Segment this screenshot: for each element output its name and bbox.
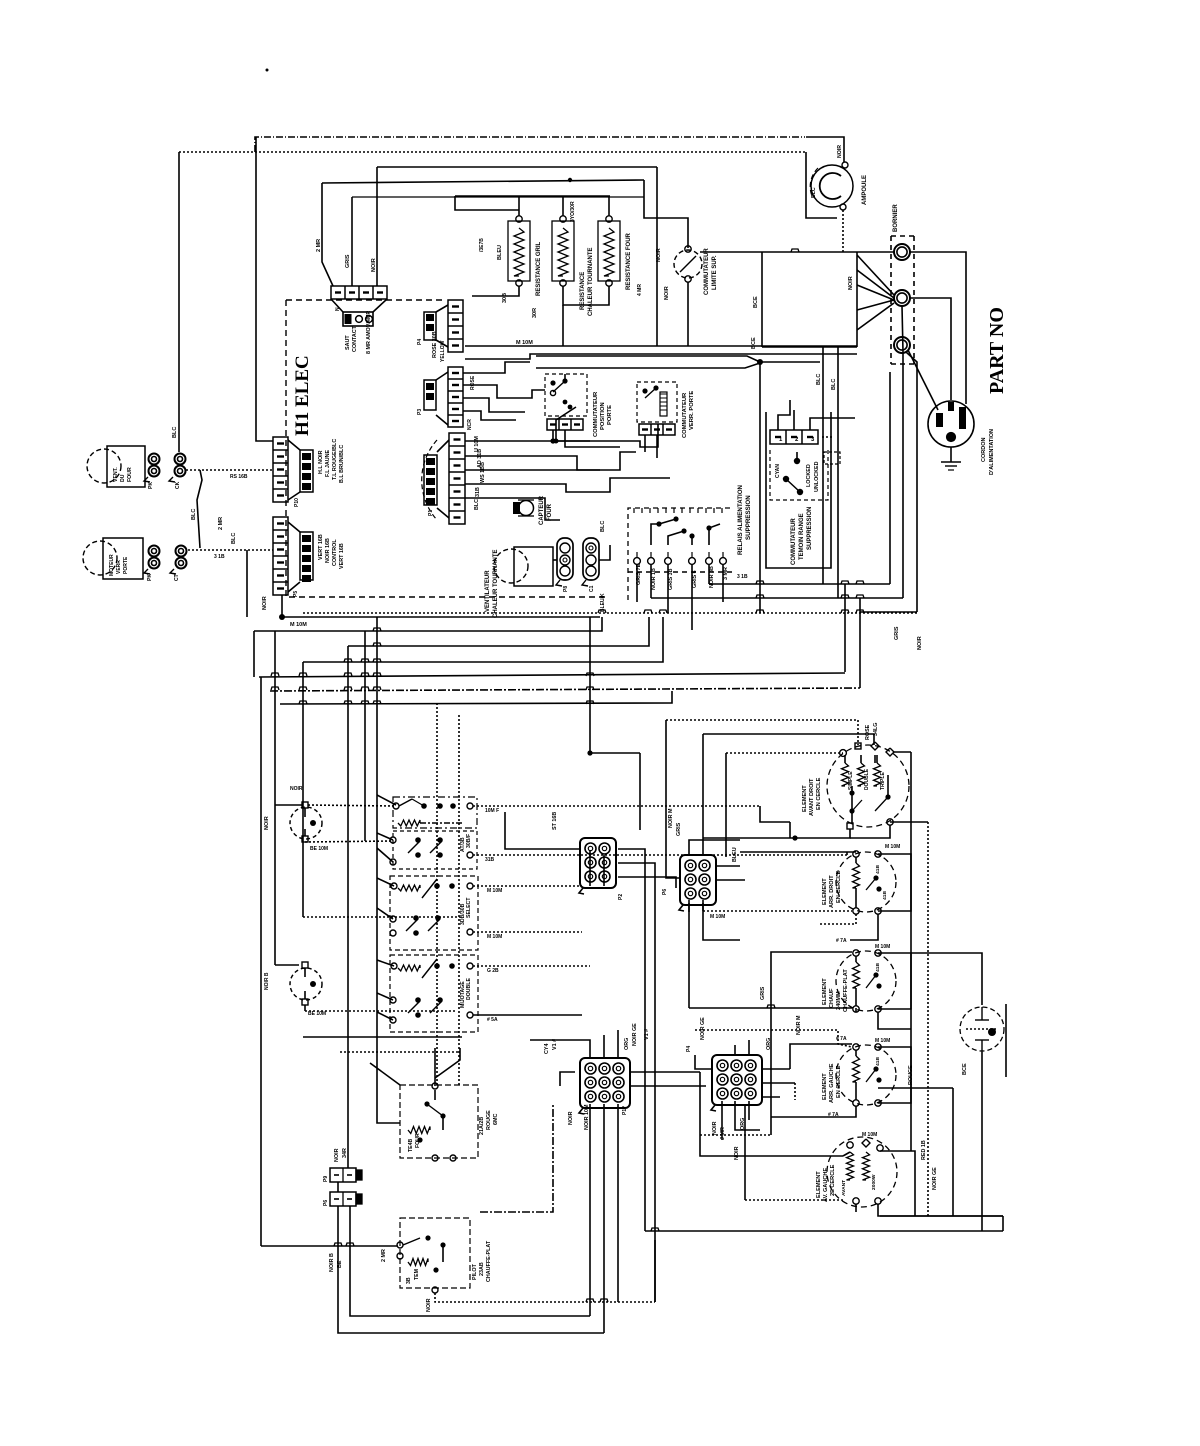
terminal pair motor2 b xyxy=(176,546,187,557)
svg-text:VERT 16B: VERT 16B xyxy=(339,543,345,569)
wire lamp1 top feed xyxy=(275,804,302,806)
svg-text:J MR: J MR xyxy=(720,1127,726,1140)
svg-text:2: 2 xyxy=(795,437,799,443)
svg-text:C1: C1 xyxy=(589,585,595,592)
svg-text:SUPPRESSION: SUPPRESSION xyxy=(745,495,752,540)
svg-text:3: 3 xyxy=(811,437,815,443)
wire C1 to relay xyxy=(599,545,610,560)
svg-text:ELEMENT: ELEMENT xyxy=(802,785,808,812)
svg-text:NOIR: NOIR xyxy=(568,1111,574,1125)
svg-text:EN CERCLE: EN CERCLE xyxy=(816,777,822,810)
svg-text:CY4: CY4 xyxy=(544,1044,550,1055)
svg-text:PK: PK xyxy=(147,574,153,581)
wire element5 bottom feed xyxy=(745,1199,843,1201)
svg-text:ELEMENT: ELEMENT xyxy=(822,1073,828,1100)
terminal pair motor2 a xyxy=(149,546,160,557)
svg-text:NOIR: NOIR xyxy=(426,1298,432,1312)
svg-text:TE4B: TE4B xyxy=(408,1138,414,1152)
svg-text:P6: P6 xyxy=(662,889,668,895)
wire lamp2 bottom to switch D xyxy=(304,1005,306,1011)
bus y584 relay to plug xyxy=(709,583,890,585)
wire selector A out xyxy=(473,805,760,807)
svg-text:POSITION: POSITION xyxy=(600,402,606,430)
switch chauffe-plat box xyxy=(400,1218,470,1288)
svg-text:PART NO: PART NO xyxy=(986,307,1008,394)
terminal bolt N xyxy=(894,290,910,306)
svg-text:NOIR: NOIR xyxy=(917,636,923,650)
svg-text:NOIR: NOIR xyxy=(262,596,268,610)
svg-text:NOIR B: NOIR B xyxy=(329,1253,335,1272)
svg-text:P8: P8 xyxy=(563,586,569,592)
svg-text:RESISTANCE FOUR: RESISTANCE FOUR xyxy=(626,232,632,290)
connector P7 header xyxy=(331,286,387,299)
svg-text:ROUGE: ROUGE xyxy=(486,1110,492,1130)
svg-text:CHAUFFE-PLAT: CHAUFFE-PLAT xyxy=(486,1240,492,1282)
wire y720 to element1 xyxy=(666,720,858,745)
svg-text:V1 #: V1 # xyxy=(552,1039,558,1050)
svg-text:TRIPLE: TRIPLE xyxy=(880,772,886,790)
svg-text:30B: 30B xyxy=(502,293,508,303)
drop x437 dotted xyxy=(436,703,438,1085)
element4 terminals xyxy=(853,1044,859,1050)
connector 9pin D xyxy=(712,1055,762,1105)
wires 9pin D xyxy=(695,1055,712,1069)
connector strip position porte xyxy=(547,419,583,430)
svg-text:RED 1B: RED 1B xyxy=(921,1140,927,1160)
svg-text:BE 10M: BE 10M xyxy=(308,1011,326,1017)
wire chauffe plat out xyxy=(435,1293,655,1302)
svg-text:240MM: 240MM xyxy=(836,991,842,1010)
svg-text:P1?: P1? xyxy=(622,1106,628,1115)
wire horloge down xyxy=(981,1052,983,1231)
wires relay bottom xyxy=(636,565,638,602)
svg-text:ARR. DROIT: ARR. DROIT xyxy=(829,875,835,908)
junction dot y180 xyxy=(568,178,572,182)
svg-text:V1 #: V1 # xyxy=(644,1029,650,1040)
svg-text:CONTACT: CONTACT xyxy=(352,325,358,352)
wires lock connector up xyxy=(778,400,790,430)
bus bottom y1315 xyxy=(350,1255,590,1316)
fuse dashes xyxy=(822,436,834,438)
svg-text:M 10M: M 10M xyxy=(290,622,307,628)
svg-text:BLC: BLC xyxy=(172,427,178,438)
hop pair el2 xyxy=(850,930,878,940)
svg-text:CHAUF: CHAUF xyxy=(829,988,835,1008)
resistor RESISTANCE FOUR xyxy=(598,221,620,281)
svg-text:M 10M: M 10M xyxy=(487,934,502,940)
wires element3 xyxy=(855,1008,857,1012)
wire feed lamps x275 xyxy=(274,631,276,965)
wires element4 xyxy=(790,1044,852,1047)
bus y675 xyxy=(259,673,845,677)
wires below position porte xyxy=(553,430,590,441)
svg-text:GRIS: GRIS xyxy=(894,626,900,640)
svg-text:RELAIS ALIMENTATION: RELAIS ALIMENTATION xyxy=(737,484,744,555)
svg-text:21A/2B: 21A/2B xyxy=(479,1117,485,1135)
element avant droit resistors xyxy=(842,763,849,786)
svg-text:3 1B: 3 1B xyxy=(214,554,225,560)
svg-text:NOIR: NOIR xyxy=(712,1121,718,1135)
left diagonal feeds xyxy=(377,795,396,805)
svg-text:GRIS 3B: GRIS 3B xyxy=(668,568,674,590)
wire x590 drop xyxy=(589,617,591,714)
svg-text:CHAUFFE-PLAT: CHAUFFE-PLAT xyxy=(843,969,849,1012)
relay box RELAIS ALIMENTATION dashed xyxy=(628,508,732,600)
connector P10 plug xyxy=(288,440,300,450)
svg-text:YELLOW: YELLOW xyxy=(440,340,446,362)
wire from node right xyxy=(760,361,820,363)
label BLC motor2 wire xyxy=(188,549,273,551)
svg-text:BCE: BCE xyxy=(962,1063,968,1075)
left long vertical bus xyxy=(253,631,255,677)
svg-text:BLC: BLC xyxy=(600,521,606,532)
svg-text:NOIR: NOIR xyxy=(848,276,854,290)
svg-text:BLEU: BLEU xyxy=(732,847,738,862)
wire y1037 xyxy=(303,1036,462,1038)
commutateur temoin enclosure box xyxy=(766,412,831,568)
svg-text:RESISTANCE GRIL: RESISTANCE GRIL xyxy=(536,241,542,296)
capteur four symbol xyxy=(513,502,520,514)
svg-text:P10: P10 xyxy=(294,498,300,507)
wire node down xyxy=(759,362,761,613)
svg-text:3 MR: 3 MR xyxy=(723,567,729,580)
wires 6pin B xyxy=(689,840,740,855)
svg-text:FOUR: FOUR xyxy=(547,503,553,521)
svg-text:VENT.: VENT. xyxy=(113,467,119,482)
connector P1 plug xyxy=(437,440,449,452)
wire N to GRIS vertical xyxy=(902,306,903,598)
connector P4 strip xyxy=(448,300,463,352)
svg-text:41B: 41B xyxy=(875,1057,881,1066)
hops on busses xyxy=(373,628,381,631)
connector P10 strip xyxy=(273,437,288,502)
wire L1 to plug xyxy=(910,252,966,404)
svg-text:BE 10M: BE 10M xyxy=(310,846,328,852)
svg-text:# 7A: # 7A xyxy=(836,938,847,944)
svg-text:CT: CT xyxy=(174,573,180,581)
svg-text:NCR: NCR xyxy=(467,419,473,430)
terminal pair motor1 b xyxy=(175,454,186,465)
wire x953 vertical xyxy=(952,1088,954,1216)
element arr droit internals xyxy=(853,863,860,888)
wire 9pinD down leg xyxy=(744,1105,746,1200)
svg-text:LIMITE SUP.: LIMITE SUP. xyxy=(712,255,718,290)
connector P5 strip xyxy=(273,517,288,595)
wire fan to neutral xyxy=(857,255,894,295)
wire four C out xyxy=(473,885,582,887)
svg-text:M 10M: M 10M xyxy=(487,888,502,894)
svg-text:NOIR GE: NOIR GE xyxy=(932,1167,938,1190)
wire x377 jog xyxy=(376,167,378,199)
svg-text:# 5A: # 5A xyxy=(487,1017,498,1023)
svg-text:F.L JAUNE: F.L JAUNE xyxy=(325,449,331,477)
wire bus L2 top xyxy=(179,151,806,153)
svg-text:COMMUTATEUR: COMMUTATEUR xyxy=(791,518,797,565)
element3 terminals xyxy=(853,950,859,956)
svg-text:ARR. GAUCHE: ARR. GAUCHE xyxy=(829,1063,835,1103)
svg-text:BCE: BCE xyxy=(751,337,757,349)
wire x365 drop xyxy=(364,631,366,841)
wire x790 to el1 bottom xyxy=(789,822,791,838)
svg-text:BLC: BLC xyxy=(831,379,837,390)
element avant droit circle xyxy=(827,745,909,827)
element chauffe plat circle xyxy=(836,951,896,1011)
wire four C out2 xyxy=(473,931,582,933)
wire 6pinB to element2 bottom xyxy=(702,903,704,911)
wire fan to P8 xyxy=(553,559,557,561)
svg-text:P4: P4 xyxy=(417,339,423,345)
wire bus L1 top xyxy=(255,137,805,152)
svg-text:BLC: BLC xyxy=(474,499,480,510)
svg-text:M 10M: M 10M xyxy=(516,340,533,346)
svg-text:CYAN: CYAN xyxy=(775,464,781,478)
switch selector box A xyxy=(393,797,477,828)
commutateur position porte box xyxy=(545,374,587,416)
connector 6pin B xyxy=(680,855,716,905)
svg-text:BORNIER: BORNIER xyxy=(893,204,899,232)
connector strip verr porte xyxy=(639,424,675,435)
svg-text:CORDON: CORDON xyxy=(981,438,987,462)
svg-text:VERR: VERR xyxy=(116,560,122,574)
connector P9 xyxy=(330,1168,356,1182)
lock switch dashed box xyxy=(770,450,828,500)
wire y1135 xyxy=(700,1134,771,1136)
svg-text:PORTE: PORTE xyxy=(607,405,613,425)
svg-text:T.L ROUGE/BLC: T.L ROUGE/BLC xyxy=(332,439,338,480)
svg-text:TEM: TEM xyxy=(414,1269,420,1280)
motor VENT DU FOUR xyxy=(87,449,121,483)
wire y734 to element1 xyxy=(703,734,874,745)
svg-text:PILOT: PILOT xyxy=(472,1263,478,1280)
svg-text:M 10M: M 10M xyxy=(862,1132,877,1138)
diagonal wires into four switch xyxy=(370,1063,400,1085)
svg-text:41B: 41B xyxy=(875,865,881,874)
junction node BCE xyxy=(757,359,763,365)
connector P7 plug body xyxy=(331,299,343,312)
svg-text:41B: 41B xyxy=(882,891,888,900)
commutateur limite sup circle xyxy=(674,250,702,278)
wires P9 P6 down xyxy=(337,1206,339,1245)
svg-text:PORTE: PORTE xyxy=(123,556,129,574)
svg-text:ROSE: ROSE xyxy=(470,375,476,390)
svg-text:GRIS: GRIS xyxy=(345,254,351,268)
element arr droit box right xyxy=(878,854,911,911)
wires element5 xyxy=(843,1152,850,1156)
bus y1245 xyxy=(261,1245,398,1247)
svg-text:2 MR: 2 MR xyxy=(218,517,224,530)
svg-text:34LG: 34LG xyxy=(873,723,879,736)
bus y612 right xyxy=(860,611,917,613)
svg-text:LOCKED: LOCKED xyxy=(806,464,812,487)
wire horloge top xyxy=(911,953,982,1005)
wire y1030 to element4 xyxy=(695,1030,852,1047)
ampoule lamp circle xyxy=(811,165,853,207)
svg-text:31B: 31B xyxy=(475,487,481,497)
bornier dashed box xyxy=(890,236,892,364)
svg-text:NOIR: NOIR xyxy=(656,248,662,262)
pilot lamp 2 xyxy=(290,968,322,1000)
terminal bolt L2 xyxy=(894,337,910,353)
svg-text:COMMUTATEUR: COMMUTATEUR xyxy=(682,392,688,438)
connector P5 plug xyxy=(288,522,300,532)
svg-text:P9: P9 xyxy=(323,1176,329,1182)
switch four box C xyxy=(390,876,478,950)
wire right verticals to elements xyxy=(844,584,846,672)
svg-text:P2: P2 xyxy=(618,894,624,900)
svg-text:CK: CK xyxy=(175,481,181,489)
wire NOIR vertical xyxy=(856,252,858,347)
wire left verticals BLC xyxy=(822,347,824,584)
svg-text:41B: 41B xyxy=(875,963,881,972)
svg-text:P6: P6 xyxy=(323,1200,329,1206)
wire D out xyxy=(473,965,590,967)
svg-text:NOIR M: NOIR M xyxy=(668,808,674,828)
wire vertical feed left xyxy=(178,152,180,452)
wire element3 top feed xyxy=(771,952,852,1135)
wire element5 top feed xyxy=(700,1072,843,1156)
svg-text:10M F: 10M F xyxy=(485,808,499,814)
svg-text:FOUR: FOUR xyxy=(415,1133,421,1148)
wires 6pin A xyxy=(589,850,591,886)
wire stub x322 xyxy=(322,183,333,286)
svg-text:BLC: BLC xyxy=(816,374,822,385)
terminal pair motor1 a xyxy=(149,454,160,465)
wire vertical x657 xyxy=(656,167,658,346)
wire x666 drop to element1 xyxy=(666,720,680,878)
svg-text:BLC: BLC xyxy=(191,509,197,520)
junction dot M 10M xyxy=(279,614,285,620)
bus bottom y1332 xyxy=(338,1245,604,1333)
svg-text:BLC: BLC xyxy=(811,187,817,198)
switch selector box B xyxy=(393,831,477,869)
wire element1 bottom xyxy=(703,829,850,838)
dashed box H1 ELEC xyxy=(286,299,446,301)
wire motor1 jumper down xyxy=(197,470,202,548)
svg-text:SELECT: SELECT xyxy=(466,897,472,918)
terminal bolt L1 xyxy=(894,244,910,260)
element arr droit circle xyxy=(836,852,896,912)
wire y1052 dotted xyxy=(340,1051,460,1053)
svg-text:30B/F: 30B/F xyxy=(466,834,472,848)
svg-text:NOIR 10M: NOIR 10M xyxy=(584,1104,590,1130)
bus y631 xyxy=(254,617,602,631)
svg-text:H.L NOIR: H.L NOIR xyxy=(318,450,324,474)
svg-text:BLEU: BLEU xyxy=(497,245,503,260)
svg-text:34R: 34R xyxy=(342,1148,348,1158)
svg-text:VENTILATEUR: VENTILATEUR xyxy=(485,570,491,612)
svg-text:M 10M: M 10M xyxy=(885,844,900,850)
connector P8 xyxy=(557,538,573,580)
svg-text:G 2B: G 2B xyxy=(487,968,499,974)
wire lamp2 top feed xyxy=(275,964,299,966)
wire x703 drop xyxy=(702,734,704,838)
bus y662 xyxy=(303,617,663,662)
wire 6pinB to element3 bottom xyxy=(688,903,690,1008)
svg-text:3YO/30R: 3YO/30R xyxy=(570,201,576,222)
svg-text:3B: 3B xyxy=(406,1277,412,1284)
svg-text:NOIR GE: NOIR GE xyxy=(700,1017,706,1040)
svg-text:NOIR: NOIR xyxy=(664,286,670,300)
commutateur verr porte box xyxy=(637,382,677,422)
wire P3 outputs xyxy=(463,362,530,373)
wire x377 to P7 xyxy=(376,199,378,286)
pilot lamp 1 xyxy=(290,807,322,839)
svg-text:P4: P4 xyxy=(686,1046,692,1052)
svg-text:EN CERCLE: EN CERCLE xyxy=(836,1065,842,1098)
wires P1 to right xyxy=(465,440,556,442)
ground symbol xyxy=(950,447,952,462)
wires 9pin C xyxy=(530,1040,590,1058)
wire vertical to P10 xyxy=(256,137,273,441)
svg-text:2 MR: 2 MR xyxy=(381,1249,387,1262)
svg-text:ELEMENT: ELEMENT xyxy=(822,978,828,1005)
svg-text:31B: 31B xyxy=(485,857,495,863)
svg-text:RS 16B: RS 16B xyxy=(230,474,248,480)
svg-text:GRIS: GRIS xyxy=(676,822,682,836)
svg-text:BCE: BCE xyxy=(753,296,759,308)
wires verr porte xyxy=(644,435,646,452)
svg-text:DOUBLE: DOUBLE xyxy=(466,978,472,1000)
svg-text:AV. GAUCHE: AV. GAUCHE xyxy=(823,1168,829,1202)
svg-text:AMPOULE: AMPOULE xyxy=(862,175,868,205)
resistance network top rail xyxy=(455,195,610,197)
element4 internals xyxy=(853,1056,860,1082)
connector 6pin A xyxy=(580,838,616,888)
wire motor1 to P10 xyxy=(186,469,273,471)
resistance network upper rail 2 xyxy=(455,196,519,210)
svg-text:BLC: BLC xyxy=(231,533,237,544)
wire selector B to el2 xyxy=(846,852,848,855)
resistor RESISTANCE CHALEUR TOURNANTE xyxy=(552,221,574,281)
svg-text:NOIR GE: NOIR GE xyxy=(632,1023,638,1046)
svg-text:2 MR: 2 MR xyxy=(316,239,322,252)
svg-text:6MC: 6MC xyxy=(493,1114,499,1125)
resistor RESISTANCE GRIL xyxy=(508,221,530,281)
element arr droit terminals xyxy=(853,851,859,857)
wire element2 feeds xyxy=(740,851,856,853)
bus y646 xyxy=(348,617,649,646)
drop x348 xyxy=(347,646,349,1168)
svg-text:UNLOCKED: UNLOCKED xyxy=(814,461,820,492)
svg-text:TEMOIN RANGE: TEMOIN RANGE xyxy=(799,513,805,560)
svg-text:2000W: 2000W xyxy=(871,1174,877,1190)
svg-text:GRIS: GRIS xyxy=(760,986,766,1000)
wire vertical x644 to limit switch xyxy=(644,180,688,248)
wire lamp1 to selector A xyxy=(308,805,394,806)
wire right verticals elements xyxy=(910,752,912,1151)
wire y917 dotted xyxy=(303,916,460,918)
wire x890 up xyxy=(889,372,891,584)
element avant droit contacts xyxy=(849,790,854,795)
element5 terminals xyxy=(847,1142,853,1148)
wire long bus y346 xyxy=(465,345,857,347)
bus y1231 xyxy=(645,1230,1003,1232)
power plug CORDON xyxy=(928,401,974,447)
dashed arc P1 xyxy=(422,440,437,520)
bus y613 dotted xyxy=(303,612,917,614)
element3 internals xyxy=(853,962,860,988)
bus y703 xyxy=(280,691,672,704)
relay contacts row xyxy=(634,558,641,565)
svg-text:ROSE: ROSE xyxy=(865,724,871,740)
svg-text:ELEMENT: ELEMENT xyxy=(816,1171,822,1198)
svg-text:4 MR: 4 MR xyxy=(637,284,643,296)
svg-text:MOTEUR: MOTEUR xyxy=(109,554,115,576)
drop x377 xyxy=(377,617,400,1123)
svg-text:M 10M: M 10M xyxy=(875,944,890,950)
wire selector B out xyxy=(473,854,847,856)
wire bus y347 xyxy=(762,346,857,348)
